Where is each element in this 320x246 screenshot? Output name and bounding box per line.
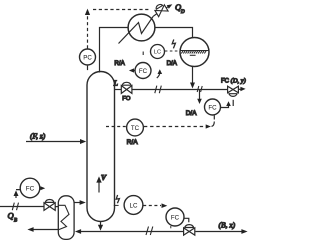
drum liquid level line: [180, 50, 208, 52]
svg-text:D/A: D/A: [167, 60, 178, 67]
reboiler U-REB: [58, 196, 74, 240]
FC feed output arrow: [40, 187, 42, 189]
signal PC measurement tap (dash below PC): [87, 66, 89, 72]
FC-B stem to line: [170, 226, 172, 228]
wire drum downcomer with arrow: [192, 67, 194, 84]
valve QD (coolant control valve, diagonal): [153, 0, 174, 17]
FC-L setpoint arrow (left): [132, 70, 136, 72]
signal PC to QD valve (dashed): [87, 15, 89, 49]
wire reflux line (drum to column through valve FO): [115, 89, 122, 91]
svg-text:LC: LC: [154, 50, 161, 56]
controller PC: [80, 49, 96, 65]
wire boilup arrow inside column: [98, 182, 100, 193]
wire boilup return reboiler to column: [74, 202, 81, 204]
signal LC to drum (dashed with break): [165, 50, 180, 52]
controller LC drum: [151, 45, 165, 59]
wire bottoms product line: [101, 231, 184, 233]
controller FC-D: [205, 99, 221, 115]
FC-L output arrow (right, up hook): [157, 73, 160, 79]
wire column bottom downcomer with arrow: [100, 222, 102, 226]
wire condenser to reflux drum: [155, 28, 193, 38]
pipe break marks (reflux line): [155, 86, 162, 94]
valve D actuator dome (below): [228, 94, 237, 97]
pipe break marks (distillate line): [197, 86, 202, 92]
svg-text:Q: Q: [8, 211, 14, 221]
FC-D output hook to valve: [221, 105, 229, 108]
wire vapor line column top to condenser: [100, 28, 129, 73]
svg-text:FC: FC: [139, 68, 148, 75]
svg-text:D: D: [180, 10, 185, 15]
column (distillation tower): [87, 72, 115, 222]
signal TC to FC-D setpoint (dashed right with hook): [144, 126, 206, 128]
svg-text:(B, x): (B, x): [219, 221, 236, 230]
svg-text:L: L: [113, 79, 118, 88]
svg-text:FC: FC: [26, 186, 35, 193]
svg-text:FC: FC: [208, 104, 217, 111]
wire coolant inlet to valve: [153, 14, 157, 17]
valve FO: [121, 86, 126, 94]
drum level hatching: [181, 51, 206, 56]
signal LC to FC-B (dashed arrow): [143, 205, 161, 207]
controller FC-B: [166, 208, 184, 226]
condenser U-COND: [128, 14, 155, 41]
signal tap to FC-D with down arrow: [199, 90, 201, 99]
valve B actuator dome: [184, 225, 194, 228]
wire condensate out arrow: [31, 229, 58, 231]
svg-text:R/A: R/A: [114, 60, 125, 67]
svg-text:FC: FC: [171, 214, 180, 221]
signal break mark (drum LC): [172, 40, 175, 49]
valve D (distillate): [228, 86, 233, 93]
wire bottoms line to reboiler (arrow left): [79, 231, 101, 233]
valve FO actuator dome: [122, 82, 132, 85]
svg-text:R/A: R/A: [127, 139, 139, 146]
signal TC measurement (dashed from column): [106, 126, 126, 128]
svg-text:D/A: D/A: [186, 110, 197, 117]
svg-text:B: B: [14, 219, 17, 224]
svg-text:FC (D, y): FC (D, y): [221, 78, 246, 85]
valve steam: [44, 203, 50, 211]
controller TC: [127, 119, 144, 136]
controller LC bottom: [124, 196, 143, 215]
valve steam actuator dome: [45, 200, 55, 203]
svg-text:TC: TC: [131, 125, 140, 132]
stray tick left of LC drum: [142, 52, 144, 56]
valve B (bottoms): [184, 228, 190, 235]
controller circle texts: [26, 50, 217, 222]
signal break mark (bottom LC): [116, 195, 119, 203]
pipe break marks (bottoms line): [146, 227, 153, 236]
svg-text:FO: FO: [122, 96, 131, 102]
controller FC feed (steam): [20, 178, 40, 198]
wire steam line: [0, 206, 44, 208]
reflux drum U-DRUM: [180, 38, 209, 67]
FC-B output hook to valve: [184, 218, 189, 222]
svg-text:V: V: [101, 173, 107, 182]
svg-text:LC: LC: [130, 202, 138, 209]
controller FC-L (reflux flow): [135, 63, 151, 79]
wire coolant line through condenser (zigzag): [119, 16, 154, 43]
svg-text:(F, z): (F, z): [30, 132, 46, 141]
reboiler coil zigzag: [58, 205, 69, 229]
wire feed line with arrow: [26, 141, 82, 143]
valve D actuator stem: [232, 100, 234, 106]
wire distillate product arrow: [239, 88, 243, 90]
FC feed setpoint arrow: [16, 190, 20, 198]
svg-text:PC: PC: [83, 54, 92, 61]
pipe break marks (steam line): [12, 203, 18, 211]
